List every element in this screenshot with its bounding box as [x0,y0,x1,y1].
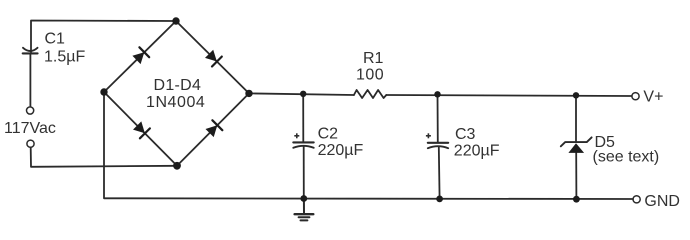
junction dot bridge right corner [245,90,252,97]
svg-text:V+: V+ [643,88,663,105]
svg-text:R1: R1 [363,50,384,67]
svg-text:1.5µF: 1.5µF [44,49,85,66]
diode D1 bar [139,47,149,57]
diode D2 bar [212,57,222,67]
junction dot bridge left corner [100,88,107,95]
junction dot C2 top [300,91,306,97]
junction dot D5 top [573,92,579,98]
diode D4 triangle (bottom-right edge) [206,125,218,137]
svg-text:1N4004: 1N4004 [146,94,205,111]
wire from lower terminal to bridge bottom corner [31,148,177,167]
zener diode D5 leads [575,95,577,142]
svg-text:(see text): (see text) [593,149,660,166]
diode D1 triangle (top-left edge) [132,52,144,64]
junction dot C3 top [434,91,440,97]
svg-text:GND: GND [644,193,680,210]
diode D2 triangle (top-right edge) [205,50,217,62]
bridge diamond edge top-left [104,21,176,92]
terminal lower 117Vac [27,140,34,147]
svg-text:C1: C1 [45,30,66,47]
svg-text:220µF: 220µF [454,142,500,159]
svg-text:117Vac: 117Vac [4,120,56,137]
capacitor C2 leads and plates [293,94,313,199]
junction dot C2 bottom / ground [300,195,307,202]
diode bars for bridge [139,47,222,138]
svg-text:100: 100 [356,67,384,84]
capacitor C3 leads and plates [428,94,448,199]
capacitor C1 [23,48,38,106]
svg-text:D1-D4: D1-D4 [154,77,202,94]
zener D5 triangle [568,143,584,153]
svg-text:C2: C2 [318,126,339,143]
junction dot bridge top corner [172,17,179,24]
bridge diamond edge bottom-right [177,93,249,165]
junction dot C3 bottom [436,196,443,203]
diode D4 bar [212,120,222,130]
terminal V+ [632,93,639,100]
terminal upper 117Vac [27,107,34,114]
zener D5 cathode bar with bent ends [561,137,592,146]
bridge diamond edge bottom-left [104,92,177,166]
wire top from C1 to bridge top corner [31,21,176,53]
wire minus: bridge left corner down and along bottom rail [104,92,633,199]
resistor R1 zigzag [354,90,386,98]
plus marker C3 [426,135,431,137]
wire plus rail left of R1 [249,93,354,95]
plus marker C2 [294,133,431,138]
junction dot D5 bottom [573,196,580,203]
ground symbol [295,199,314,221]
svg-text:220µF: 220µF [318,142,364,159]
svg-text:C3: C3 [455,126,476,143]
bridge diamond edge top-right [176,21,249,93]
wire plus rail right of R1 to V+ [386,95,632,96]
terminal GND [633,196,640,203]
diode D3 triangle (bottom-left edge) [133,121,145,133]
junction dot bridge bottom corner [173,162,181,170]
diode D3 bar [140,128,150,138]
